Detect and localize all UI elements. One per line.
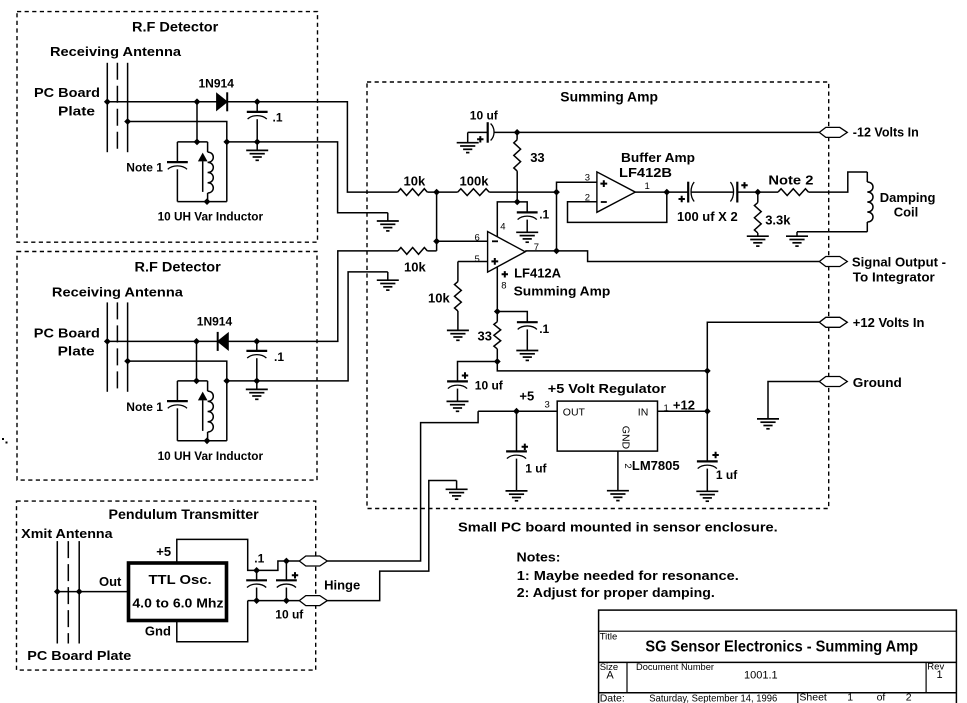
diode D1 1N914 bbox=[217, 92, 228, 111]
connector -12 Volts In bbox=[819, 127, 847, 137]
arrow of variable inductor L1 bbox=[198, 153, 208, 192]
svg-text:Out: Out bbox=[99, 574, 122, 589]
svg-text:A: A bbox=[606, 670, 614, 682]
junction tank1 top-left bbox=[194, 139, 201, 146]
capacitor C6 10uf (V+ bulk) bbox=[447, 362, 497, 402]
junction +12 rail / connector riser bbox=[704, 368, 711, 375]
ground under R5 bbox=[457, 311, 459, 330]
svg-text:LM7805: LM7805 bbox=[632, 458, 680, 473]
svg-text:PC Board Plate: PC Board Plate bbox=[27, 648, 131, 663]
junction C12 top bbox=[283, 558, 290, 565]
wire damping coil return bbox=[797, 231, 867, 233]
svg-text:Date:: Date: bbox=[600, 693, 625, 703]
wire output rail (pin7) to signal output bbox=[525, 251, 819, 262]
svg-text:R.F Detector: R.F Detector bbox=[135, 260, 222, 275]
ground under C3 bbox=[467, 132, 469, 142]
regulator U3 LM7805 body bbox=[557, 401, 657, 451]
svg-text:8: 8 bbox=[501, 281, 506, 292]
svg-text:Note 2: Note 2 bbox=[768, 173, 813, 188]
svg-text:100 uf X 2: 100 uf X 2 bbox=[677, 209, 738, 224]
capacitor C8 100uf (series pair right) bbox=[730, 182, 737, 203]
junction xmit antenna right bbox=[76, 588, 83, 595]
svg-text:OUT: OUT bbox=[563, 407, 586, 419]
svg-text:5: 5 bbox=[475, 254, 480, 265]
svg-text:4: 4 bbox=[500, 222, 505, 233]
ground under C2 bbox=[256, 381, 258, 390]
junction tank2 bottom bbox=[204, 437, 211, 444]
ground under R8 bbox=[757, 233, 759, 236]
svg-text:Small PC board mounted in sens: Small PC board mounted in sensor enclosu… bbox=[458, 520, 778, 535]
wire ground connector to earth bbox=[768, 382, 819, 419]
resistor R5 10k (pin5 pulldown) bbox=[455, 262, 462, 312]
junction C12 bottom bbox=[283, 597, 290, 604]
wire antenna1 second line to tank bbox=[128, 122, 227, 142]
wire +12 Volts In rail bbox=[707, 322, 819, 411]
svg-text:1: 1 bbox=[664, 403, 669, 414]
svg-text:Plate: Plate bbox=[58, 104, 95, 119]
junction R6 bottom node bbox=[494, 358, 501, 365]
capacitor C3 10uf (-12V bypass) bbox=[468, 122, 517, 143]
junction antenna1 top bbox=[104, 98, 111, 105]
wire sensor ground to hinge connector bbox=[327, 481, 456, 601]
svg-text:Ground: Ground bbox=[853, 375, 902, 390]
svg-text:.1: .1 bbox=[273, 111, 283, 125]
antenna plate 1 (three vertical lines) bbox=[107, 63, 127, 152]
junction antenna2 top bbox=[104, 338, 111, 345]
svg-text:10k: 10k bbox=[404, 260, 426, 275]
ground under C4 bbox=[516, 231, 538, 233]
wire GND pin of U3 bbox=[617, 451, 619, 491]
ground under C6 bbox=[447, 400, 469, 402]
svg-text:+12: +12 bbox=[673, 398, 695, 413]
junction C11 top bbox=[253, 567, 260, 574]
svg-text:Signal Output -: Signal Output - bbox=[852, 255, 946, 270]
op-amp U2 LF412B (buffer) bbox=[597, 172, 635, 212]
junction tank2 top-left bbox=[193, 378, 200, 385]
wire pin 5 of U1A bbox=[458, 261, 488, 263]
resistor R3 10k (input 2) bbox=[398, 248, 427, 255]
svg-text:.1: .1 bbox=[539, 322, 549, 336]
svg-text:10 uf: 10 uf bbox=[475, 379, 504, 393]
antenna plate 2 (three vertical lines) bbox=[107, 302, 127, 391]
junction cap C2 top bbox=[253, 338, 260, 345]
svg-text:Receiving Antenna: Receiving Antenna bbox=[50, 44, 182, 59]
diode D2 1N914 (points left) bbox=[218, 332, 229, 351]
wire riser main to tank2 top bbox=[196, 341, 198, 381]
svg-text:1: 1 bbox=[645, 181, 650, 192]
svg-text:Sheet: Sheet bbox=[799, 692, 827, 703]
wire +5 rail to hinge connector bbox=[327, 411, 478, 561]
label Signal Output - To Integrator bbox=[852, 255, 946, 285]
label + (C6) bbox=[462, 372, 468, 378]
resistor R7 Note 2 (damping) bbox=[778, 189, 809, 196]
svg-text:LF412B: LF412B bbox=[619, 165, 672, 180]
svg-text:Plate: Plate bbox=[58, 344, 95, 359]
tank1 bottom wire bbox=[177, 201, 226, 203]
svg-text:1: 1 bbox=[847, 692, 853, 703]
svg-text:R.F Detector: R.F Detector bbox=[132, 20, 219, 35]
capacitor Note1 (tank1 trim cap) bbox=[167, 142, 188, 202]
svg-text:Note 1: Note 1 bbox=[126, 161, 163, 175]
label PC Board Plate 2 bbox=[34, 326, 100, 359]
svg-text:.1: .1 bbox=[254, 552, 264, 566]
svg-text:1 uf: 1 uf bbox=[525, 462, 547, 476]
connector Hinge bottom bbox=[299, 596, 327, 606]
resistor R1 10k (input 1) bbox=[398, 189, 428, 196]
svg-text:1N914: 1N914 bbox=[197, 315, 233, 329]
junction OUT / C9 bbox=[513, 408, 520, 415]
svg-text:10 UH Var Inductor: 10 UH Var Inductor bbox=[158, 210, 264, 224]
label + (C9) bbox=[522, 444, 528, 450]
junction pin4 node bbox=[514, 199, 521, 206]
label PC Board Plate 1 bbox=[34, 85, 100, 119]
junction input node R1/R2 bbox=[433, 189, 440, 196]
junction C2 bottom bbox=[253, 378, 260, 385]
ground under C5 bbox=[516, 350, 538, 352]
wire diode1 to right bbox=[227, 102, 398, 192]
svg-text:Document Number: Document Number bbox=[636, 662, 714, 673]
svg-text:.1: .1 bbox=[274, 350, 284, 364]
svg-text:10k: 10k bbox=[404, 174, 426, 189]
svg-text:6: 6 bbox=[475, 233, 480, 244]
junction tank2 top-right bbox=[223, 378, 230, 385]
svg-text:Summing Amp: Summing Amp bbox=[560, 90, 658, 105]
wire R2 to opampB node bbox=[489, 191, 556, 193]
wire +12 rail to regulator bbox=[497, 362, 707, 371]
ground symbol (sensor board) bbox=[456, 481, 458, 490]
junction tank1 top-right bbox=[223, 139, 230, 146]
label Damping Coil bbox=[880, 190, 936, 220]
capacitor C1 .1 (detector1) bbox=[247, 102, 268, 142]
wire summing node vertical (R1 node down to pin6) bbox=[436, 192, 438, 251]
junction pin7 rail bbox=[553, 248, 560, 255]
svg-text:Pendulum Transmitter: Pendulum Transmitter bbox=[109, 507, 260, 522]
ground detector2 return bbox=[387, 272, 389, 280]
label + (pin8 rail polarity) bbox=[502, 271, 508, 277]
wire antenna2 second line to tank2 bbox=[128, 361, 227, 381]
svg-text:3: 3 bbox=[545, 400, 550, 411]
title block frame bbox=[599, 610, 957, 703]
R.F Detector 2 enclosure (dashed box) bbox=[17, 252, 317, 481]
svg-text:+12 Volts In: +12 Volts In bbox=[853, 315, 925, 330]
wire detector2 ground return bbox=[227, 272, 388, 381]
Summing Amp enclosure (dashed box) bbox=[367, 82, 829, 509]
svg-text:10k: 10k bbox=[428, 291, 450, 306]
wire opampB output bbox=[635, 191, 688, 193]
svg-text:10 uf: 10 uf bbox=[470, 108, 499, 122]
wire opampB node down to output rail bbox=[556, 192, 558, 251]
svg-text:4.0 to 6.0 Mhz: 4.0 to 6.0 Mhz bbox=[132, 595, 224, 610]
junction rail / pin3 riser bbox=[553, 189, 560, 196]
svg-text:Summing Amp: Summing Amp bbox=[514, 284, 611, 299]
svg-text:Damping: Damping bbox=[880, 190, 936, 205]
wire R7 to damping coil bbox=[809, 172, 868, 192]
junction tank1 bottom bbox=[204, 198, 211, 205]
ground damping coil bbox=[796, 232, 798, 236]
inductor L3 damping coil bbox=[867, 172, 873, 232]
svg-text:TTL Osc.: TTL Osc. bbox=[149, 572, 212, 587]
svg-text:of: of bbox=[877, 692, 886, 703]
svg-text:3.3k: 3.3k bbox=[765, 213, 791, 228]
label + (C8) bbox=[741, 182, 747, 188]
junction C8 / 3.3k bbox=[754, 189, 761, 196]
ground detector1 return bbox=[387, 213, 389, 221]
svg-text:Title: Title bbox=[600, 632, 618, 643]
wire -12V rail bbox=[517, 131, 819, 133]
wire tank1 right vertical bbox=[226, 142, 228, 202]
wire pin 6 of U1A bbox=[437, 240, 488, 242]
Pendulum Transmitter enclosure (dashed box) bbox=[17, 501, 316, 670]
stray mark left edge bbox=[2, 438, 4, 440]
capacitor C2 .1 (detector2) bbox=[246, 341, 267, 381]
junction output / feedback bbox=[663, 189, 670, 196]
wire C8 to note2 node bbox=[737, 191, 778, 193]
wire detector1 ground return bbox=[227, 142, 388, 213]
junction pin8 node bbox=[494, 308, 501, 315]
capacitor C10 1uf (IN side) bbox=[697, 411, 718, 491]
junction xmit antenna left bbox=[54, 588, 61, 595]
svg-text:LF412A: LF412A bbox=[514, 266, 562, 281]
junction IN / C10 bbox=[704, 408, 711, 415]
svg-text:1: Maybe needed for resonance.: 1: Maybe needed for resonance. bbox=[517, 568, 739, 583]
svg-text:Notes:: Notes: bbox=[517, 550, 561, 565]
svg-text:Hinge: Hinge bbox=[324, 578, 360, 593]
svg-text:.1: .1 bbox=[539, 208, 549, 222]
wire pin 8 V+ supply bbox=[496, 267, 498, 312]
wire pin3 riser to opampB bbox=[557, 182, 597, 192]
connector Ground bbox=[819, 377, 847, 387]
resistor R8 3.3k bbox=[754, 192, 761, 233]
svg-text:33: 33 bbox=[478, 329, 492, 344]
op-amp U1 LF412A (summing) bbox=[488, 232, 526, 273]
capacitor C9 1uf (OUT side) bbox=[506, 411, 527, 491]
wire R3 to node bbox=[427, 250, 436, 252]
wire main rail detector1 (antenna to diode) bbox=[107, 101, 216, 103]
junction pin6 node bbox=[433, 238, 440, 245]
ground symbol (Ground connector) bbox=[757, 418, 779, 420]
label + (C3 polarity) bbox=[477, 136, 483, 142]
junction diode1 anode node bbox=[194, 98, 201, 105]
wire pin 4 V- supply bbox=[497, 202, 517, 237]
capacitor C11 .1 (xmit) bbox=[246, 570, 267, 600]
svg-text:-12 Volts In: -12 Volts In bbox=[853, 125, 919, 140]
svg-text:100k: 100k bbox=[460, 174, 490, 189]
svg-text:Coil: Coil bbox=[894, 205, 919, 220]
ground under C1 bbox=[256, 142, 258, 151]
capacitor C4 .1 (V- bypass) bbox=[517, 202, 538, 232]
svg-text:GND: GND bbox=[620, 426, 632, 450]
ground under C9 bbox=[506, 490, 528, 492]
wire between series caps bbox=[691, 191, 734, 193]
svg-text:Receiving Antenna: Receiving Antenna bbox=[52, 285, 184, 300]
inductor L1 10UH variable bbox=[208, 142, 214, 202]
junction C11 bottom bbox=[253, 597, 260, 604]
svg-text:3: 3 bbox=[585, 173, 590, 184]
svg-text:2: Adjust for proper damping.: 2: Adjust for proper damping. bbox=[517, 585, 715, 600]
label + (C7) bbox=[679, 196, 685, 202]
capacitor C12 10uf (xmit) bbox=[276, 561, 297, 601]
wire TTL +5 pin to caps bbox=[177, 539, 257, 570]
wire tank2 right vertical bbox=[226, 381, 228, 441]
svg-text:PC Board: PC Board bbox=[34, 85, 100, 100]
svg-text:+5: +5 bbox=[519, 389, 534, 404]
svg-text:To Integrator: To Integrator bbox=[853, 270, 935, 285]
capacitor C7 100uf (series pair left) bbox=[688, 182, 694, 203]
svg-text:2: 2 bbox=[906, 692, 912, 703]
svg-text:Saturday, September 14, 1996: Saturday, September 14, 1996 bbox=[649, 693, 777, 703]
wire TTL Gnd pin bbox=[177, 601, 248, 642]
svg-text:+5: +5 bbox=[156, 544, 171, 559]
svg-text:PC Board: PC Board bbox=[34, 326, 100, 341]
wire R1 to R2 node bbox=[427, 191, 457, 193]
junction antenna1 second bbox=[124, 118, 131, 125]
wire pin2 feedback loop bbox=[568, 192, 667, 222]
wire C11 node to C12 node bbox=[257, 561, 287, 570]
ground under C10 bbox=[696, 490, 718, 492]
junction antenna2 second bbox=[124, 358, 131, 365]
svg-text:10 UH Var Inductor: 10 UH Var Inductor bbox=[158, 449, 264, 463]
junction cap C1 top bbox=[254, 98, 261, 105]
arrow of variable inductor L2 bbox=[198, 392, 208, 431]
resistor R6 33 (V+ feed) bbox=[494, 312, 501, 362]
oscillator U4 TTL box bbox=[129, 563, 227, 621]
wire antenna to TTL Out bbox=[57, 591, 127, 593]
svg-text:1: 1 bbox=[937, 669, 943, 681]
tank1 top wire bbox=[177, 141, 207, 143]
capacitor C5 .1 (V+ bypass) bbox=[497, 312, 537, 351]
svg-text:10 uf: 10 uf bbox=[275, 608, 304, 622]
junction C1 bottom bbox=[254, 139, 261, 146]
inductor L2 10UH variable bbox=[208, 381, 214, 441]
capacitor Note1 (tank2 trim cap) bbox=[167, 381, 188, 441]
svg-text:+5 Volt Regulator: +5 Volt Regulator bbox=[548, 381, 666, 396]
svg-text:1 uf: 1 uf bbox=[716, 468, 738, 482]
svg-text:Gnd: Gnd bbox=[145, 624, 171, 639]
wire main rail detector2 bbox=[107, 340, 217, 342]
wire xmit ground rail bbox=[248, 600, 300, 602]
svg-text:1001.1: 1001.1 bbox=[744, 670, 778, 682]
tank2 bottom wire bbox=[177, 440, 226, 442]
xmit antenna plate (three vertical lines) bbox=[57, 541, 79, 643]
svg-text:1N914: 1N914 bbox=[199, 77, 235, 91]
wire diode2 to summing amp input bbox=[228, 251, 398, 342]
junction -12V rail / 33 resistor bbox=[514, 129, 521, 136]
svg-text:Buffer Amp: Buffer Amp bbox=[621, 150, 695, 165]
resistor R2 100k (feedback) bbox=[458, 189, 490, 196]
junction diode2 node bbox=[193, 338, 200, 345]
connector +12 Volts In bbox=[819, 317, 847, 327]
wire IN pin bbox=[658, 410, 708, 412]
svg-text:Xmit Antenna: Xmit Antenna bbox=[21, 526, 113, 541]
svg-text:IN: IN bbox=[638, 407, 649, 419]
connector Hinge top bbox=[299, 556, 327, 566]
wire C12 node to hinge top bbox=[286, 560, 299, 562]
wire riser main to tank1 top bbox=[196, 102, 198, 142]
svg-text:33: 33 bbox=[530, 150, 544, 165]
label + (C10) bbox=[712, 452, 718, 458]
svg-text:Note 1: Note 1 bbox=[126, 400, 163, 414]
resistor R4 33 (-12V feed) bbox=[514, 132, 521, 202]
label + (C12) bbox=[292, 572, 298, 578]
R.F Detector 1 enclosure (dashed box) bbox=[17, 12, 318, 243]
ground under U3 GND bbox=[607, 490, 629, 492]
tank2 top wire bbox=[177, 380, 207, 382]
svg-text:SG Sensor Electronics - Summin: SG Sensor Electronics - Summing Amp bbox=[645, 639, 918, 656]
wire OUT pin +5 rail bbox=[478, 410, 557, 412]
connector Signal Output bbox=[819, 257, 847, 267]
